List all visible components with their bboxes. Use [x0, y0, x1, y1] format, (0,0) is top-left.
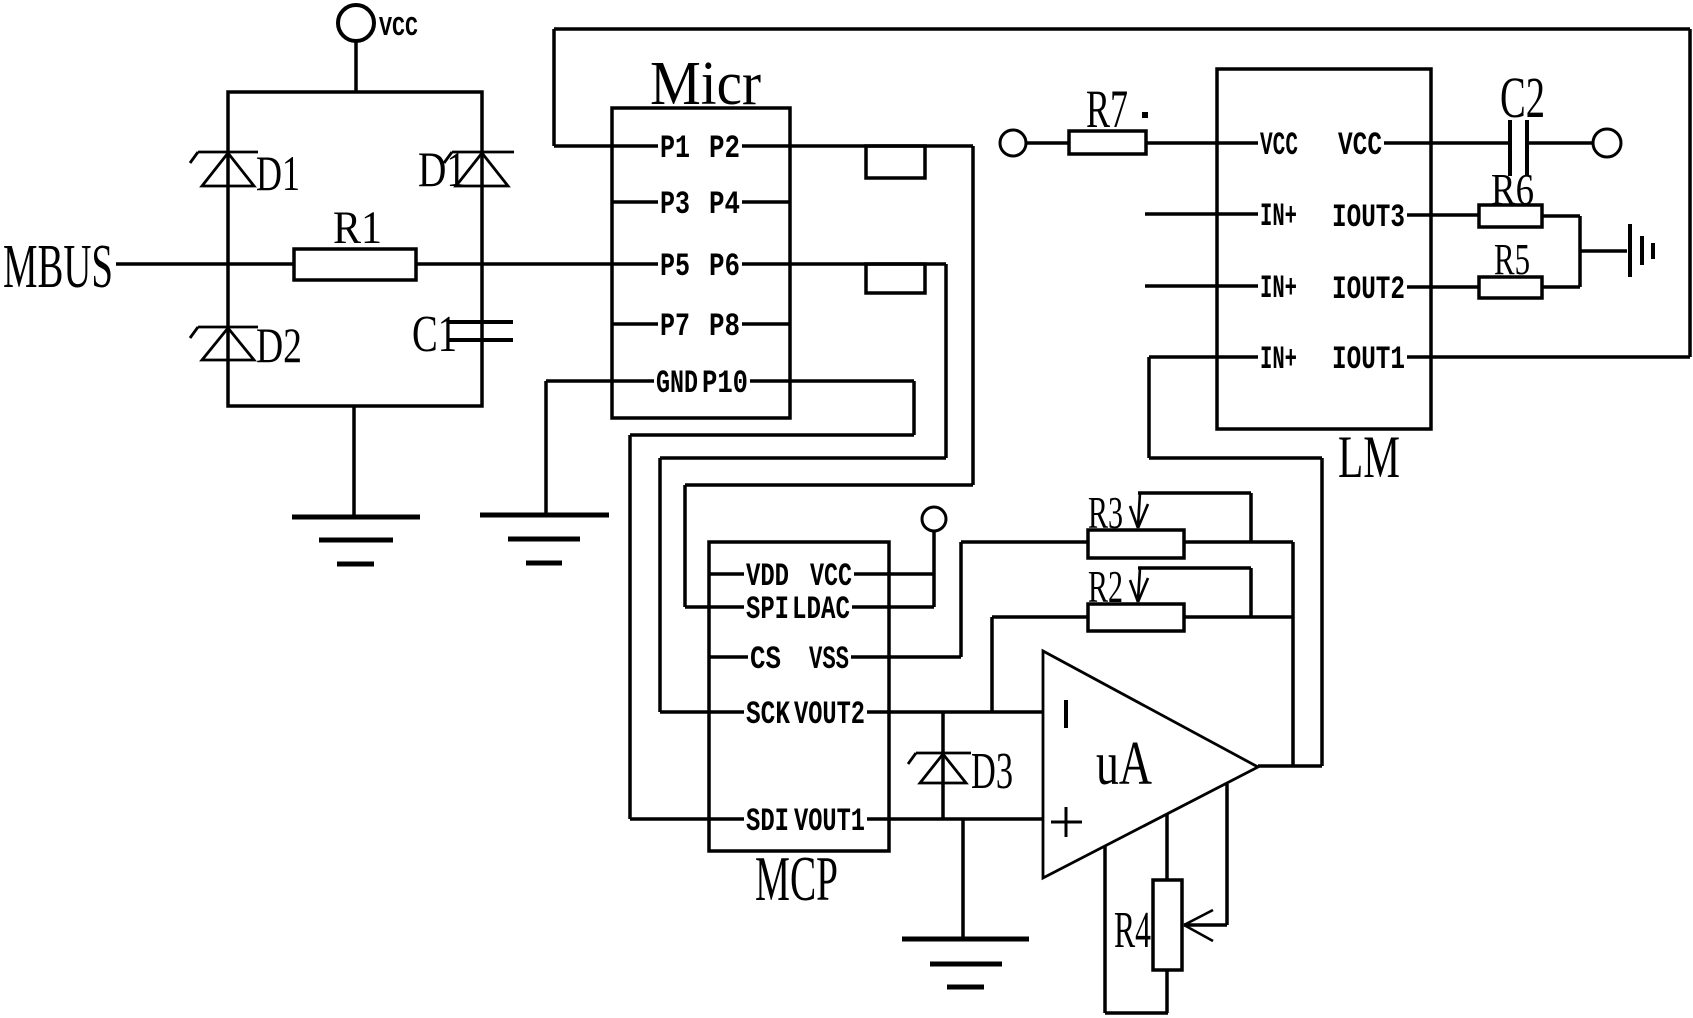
potentiometer R3 — [1088, 487, 1184, 558]
svg-text:P7: P7 — [660, 308, 690, 345]
wire top rail down right side to IOUT1 — [1688, 29, 1692, 357]
potentiometer R4 — [1114, 880, 1182, 970]
pin IOUT1 — [1332, 341, 1431, 378]
pin VOUT2 — [794, 696, 889, 733]
pin LDAC — [792, 591, 889, 628]
jumper rectangle on P2 wire — [866, 146, 925, 178]
wire terminal to VCC and LDAC — [889, 531, 934, 607]
wire P1 to top rail — [554, 29, 612, 146]
svg-text:VOUT1: VOUT1 — [794, 803, 865, 840]
pin P8 — [709, 308, 790, 345]
svg-text:R3: R3 — [1088, 487, 1123, 538]
pin IOUT3 — [1332, 199, 1431, 236]
ground (right, rotated) — [1630, 224, 1653, 277]
microcontroller Micr box — [612, 108, 790, 418]
svg-text:R1: R1 — [333, 202, 382, 254]
wire IOUT1 to right rail — [1431, 355, 1690, 359]
DAC MCP box — [709, 542, 889, 851]
wire R1 to Micr P5 — [416, 262, 612, 266]
svg-text:P2: P2 — [709, 130, 740, 167]
R3 wiper arrow — [1130, 493, 1148, 528]
diode D2 — [190, 327, 258, 360]
ground (under protection box) — [292, 517, 420, 564]
wire P2 riser to SPI — [685, 485, 973, 607]
resistor R5 — [1479, 235, 1542, 298]
pin IOUT2 — [1332, 271, 1431, 308]
svg-text:R5: R5 — [1494, 235, 1530, 284]
pin P7 — [612, 308, 690, 345]
wire VCC terminal to box top — [354, 41, 358, 92]
terminal (left of R7) — [1000, 130, 1026, 156]
IC LM box — [1217, 69, 1431, 429]
wire IN+ row3 to op-amp output — [1149, 357, 1322, 766]
pin P3 — [612, 186, 690, 223]
svg-text:VDD: VDD — [746, 558, 789, 595]
svg-text:D2: D2 — [256, 317, 302, 373]
wire R2 right to feedback — [1184, 615, 1293, 619]
svg-text:VCC: VCC — [1260, 127, 1298, 164]
pin P1 — [612, 130, 690, 167]
svg-text:IN+: IN+ — [1260, 341, 1297, 378]
wire P6 riser to SCK — [660, 458, 946, 712]
op-amp non-inverting input mark — [1051, 807, 1082, 837]
pin P4 — [709, 186, 790, 223]
capacitor C2 — [1510, 120, 1527, 176]
svg-text:P5: P5 — [660, 248, 690, 285]
R2 wiper arrow — [1130, 568, 1148, 602]
svg-text:VSS: VSS — [809, 641, 849, 678]
terminal (right of C2) — [1593, 129, 1621, 157]
wire R4 top to op-amp edge — [1165, 814, 1169, 880]
svg-text:IOUT2: IOUT2 — [1332, 271, 1405, 308]
wire VOUT1 to ground — [961, 819, 965, 939]
svg-text:GND: GND — [656, 365, 698, 402]
pin SCK — [709, 696, 791, 733]
resistor R6 — [1479, 165, 1542, 227]
pin GND — [612, 365, 698, 402]
pin P2 — [709, 130, 790, 167]
svg-text:VCC: VCC — [1338, 127, 1382, 164]
diode D1 (right) — [444, 152, 514, 186]
pin P6 — [709, 248, 790, 285]
svg-text:P8: P8 — [709, 308, 740, 345]
wire P2 right — [790, 146, 973, 485]
pin CS — [709, 641, 781, 678]
wire IN+ row1 stub — [1145, 212, 1217, 216]
wire LM VCC right to C2 — [1431, 141, 1510, 145]
ground (under Micr GND) — [480, 515, 609, 563]
wire IOUT2 to R5 — [1431, 285, 1479, 289]
wire VOUT2 riser to R2 — [992, 617, 1088, 712]
pin VOUT1 — [794, 803, 889, 840]
wire op-amp lower edge to R4 left leg — [1105, 846, 1168, 1013]
svg-text:CS: CS — [750, 641, 781, 678]
op-amp inverting input mark — [1064, 700, 1068, 728]
svg-text:MBUS: MBUS — [3, 233, 113, 301]
wire R2 wiper bracket — [1138, 568, 1251, 617]
svg-text:P4: P4 — [709, 186, 740, 223]
wire box bottom to ground — [352, 406, 356, 517]
wire C2 to right terminal — [1527, 141, 1593, 145]
pin VDD — [709, 558, 789, 595]
wire GND to ground — [546, 381, 612, 515]
wire R6 and R5 right junction — [1542, 216, 1627, 287]
wire R7 to LM VCC — [1146, 141, 1217, 145]
svg-text:LM: LM — [1338, 424, 1400, 490]
wire VOUT2 to op-amp inverting input — [889, 710, 1043, 714]
wire IN+ row2 stub — [1145, 284, 1217, 288]
wire MBUS to R1 — [116, 262, 294, 266]
power terminal VCC — [338, 5, 418, 44]
pin VCC (MCP) — [810, 558, 889, 595]
svg-text:D1: D1 — [256, 145, 300, 201]
protection network box — [228, 92, 482, 406]
svg-text:uA: uA — [1096, 730, 1152, 798]
svg-text:VCC: VCC — [379, 14, 418, 44]
svg-text:P6: P6 — [709, 248, 740, 285]
wire op-amp output — [1258, 764, 1322, 768]
svg-text:C2: C2 — [1500, 65, 1545, 130]
wire R4 wiper to op-amp edge — [1184, 784, 1227, 925]
svg-text:IOUT3: IOUT3 — [1332, 199, 1405, 236]
svg-text:SDI: SDI — [746, 803, 789, 840]
svg-text:LDAC: LDAC — [792, 591, 850, 628]
svg-text:MCP: MCP — [755, 844, 838, 914]
pin IN+ (row 1) — [1217, 198, 1297, 235]
svg-text:R6: R6 — [1491, 165, 1534, 214]
svg-text:P10: P10 — [702, 365, 748, 402]
diode D3 — [908, 712, 971, 819]
svg-text:C1: C1 — [412, 306, 457, 363]
pin P5 — [612, 248, 690, 285]
wire R4 bottom leg — [1165, 970, 1169, 1013]
svg-text:SPI: SPI — [746, 591, 789, 628]
svg-text:P3: P3 — [660, 186, 690, 223]
svg-text:VCC: VCC — [810, 558, 852, 595]
wire P10 to SDI — [630, 381, 914, 819]
wire R3 wiper bracket — [1138, 493, 1251, 542]
svg-text:R4: R4 — [1114, 902, 1151, 959]
pin VCC (LM right) — [1338, 127, 1431, 164]
svg-text:R7: R7 — [1086, 79, 1128, 139]
wire terminal to R7 — [1026, 141, 1069, 145]
pin VSS — [809, 641, 889, 678]
svg-text:R2: R2 — [1088, 561, 1123, 612]
R4 wiper arrow — [1184, 910, 1213, 941]
pin SDI — [709, 803, 789, 840]
pin VCC (LM left) — [1217, 127, 1298, 164]
svg-text:D3: D3 — [971, 743, 1013, 800]
wire IOUT3 to R6 — [1431, 213, 1479, 217]
svg-text:IN+: IN+ — [1260, 270, 1297, 307]
pin IN+ (row 3) — [1217, 341, 1297, 378]
diode D1 (left) — [190, 152, 258, 186]
jumper rectangle on P6 wire — [866, 264, 925, 293]
wire top rail across — [554, 27, 1690, 31]
svg-text:P1: P1 — [660, 130, 690, 167]
resistor R1 — [294, 202, 416, 280]
resistor R7 — [1069, 79, 1148, 154]
svg-text:SCK: SCK — [746, 696, 791, 733]
pin SPI — [709, 591, 789, 628]
svg-text:IN+: IN+ — [1260, 198, 1297, 235]
wire VSS to R3 — [889, 542, 1088, 657]
wire VOUT1 to op-amp non-inverting input — [889, 817, 1043, 821]
svg-text:VOUT2: VOUT2 — [794, 696, 865, 733]
terminal (above MCP) — [922, 507, 946, 531]
svg-text:D1: D1 — [418, 141, 466, 197]
potentiometer R2 — [1088, 561, 1184, 631]
capacitor C1 — [448, 322, 513, 340]
wire P6 right — [790, 264, 946, 458]
wire R3 right to feedback — [1184, 542, 1293, 766]
op-amp U1 (uA) — [1043, 651, 1258, 878]
pin IN+ (row 2) — [1217, 270, 1297, 307]
ground (under D3) — [902, 939, 1029, 987]
svg-text:IOUT1: IOUT1 — [1332, 341, 1405, 378]
pin P10 — [702, 365, 790, 402]
